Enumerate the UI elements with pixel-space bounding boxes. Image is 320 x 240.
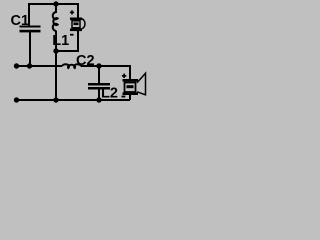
capacitor C1 bottom plate	[20, 30, 41, 33]
wire top rail	[29, 4, 78, 26]
node L2 bottom junction dot	[96, 97, 101, 102]
node input minus terminal dot	[14, 97, 19, 102]
node bottom rail junction dot	[53, 97, 58, 102]
wire C1 bottom lead	[29, 32, 31, 67]
node B junction dot	[53, 48, 58, 53]
wire node B down to bottom rail	[55, 51, 57, 100]
speaker tweeter	[70, 10, 85, 35]
svg-text:C2: C2	[76, 53, 95, 69]
node L2 top junction dot	[96, 63, 101, 68]
capacitor C1 top plate	[20, 26, 41, 28]
svg-text:L1: L1	[52, 33, 69, 49]
node input plus terminal dot	[14, 63, 19, 68]
capacitor L2 bottom plate	[88, 87, 110, 90]
woofer magnet bar	[127, 85, 134, 88]
background	[0, 0, 155, 121]
capacitor L2 top plate	[88, 83, 110, 86]
tweeter top terminal plate	[70, 18, 82, 21]
node C1 junction dot	[27, 63, 32, 68]
wire mid left segment	[16, 65, 62, 67]
woofer cone	[137, 73, 146, 95]
wire node B to tweeter bottom	[56, 31, 78, 52]
svg-text:C1: C1	[11, 13, 30, 29]
inductor C2 coil (series)	[62, 64, 81, 68]
wire L1 top lead	[55, 4, 57, 13]
tweeter bottom terminal plate	[70, 29, 82, 32]
wire L1 bottom lead	[55, 31, 57, 52]
tweeter cone	[81, 19, 85, 29]
tweeter magnet bar	[74, 23, 79, 26]
woofer plus polarity mark	[122, 74, 126, 78]
tweeter body frame	[72, 21, 80, 28]
wire woofer bottom lead	[129, 94, 131, 100]
tweeter plus polarity mark	[70, 10, 74, 14]
tweeter minus polarity mark	[70, 34, 74, 36]
woofer bottom terminal plate	[123, 92, 139, 95]
woofer body frame	[125, 83, 136, 93]
svg-text:L2: L2	[101, 86, 118, 102]
wire mid right segment to woofer corner	[81, 66, 130, 80]
inductor L1 coil	[53, 12, 58, 30]
speaker woofer	[122, 73, 146, 97]
wire L2 bottom lead	[98, 89, 100, 100]
wire bottom rail	[16, 99, 130, 101]
woofer top terminal plate	[123, 79, 139, 82]
wire tweeter top lead	[77, 3, 79, 18]
node top rail junction dot	[53, 1, 58, 6]
woofer minus polarity mark	[122, 96, 126, 98]
wire L2 top lead	[98, 66, 100, 84]
